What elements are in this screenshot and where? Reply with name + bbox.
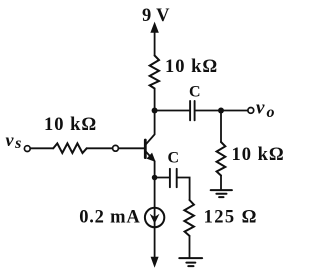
terminal circle vs <box>24 146 30 152</box>
svg-text:C: C <box>168 150 180 167</box>
resistor RL 10 kOhm (load) <box>217 142 226 176</box>
resistor RS 10 kOhm (source) <box>53 143 86 153</box>
wire RL to ground <box>220 176 222 191</box>
transistor Q1 base bar <box>144 140 147 158</box>
wire RE to ground <box>189 236 191 258</box>
wire capacitor C1 to output node <box>196 110 222 112</box>
wire base terminal to base <box>119 147 145 149</box>
transistor Q1 emitter arrow <box>147 154 155 162</box>
wire output node to vo terminal <box>221 110 248 112</box>
wire collector node to capacitor C1 <box>155 110 190 112</box>
ground (under RE) <box>179 257 202 259</box>
current source I1 internal wire <box>154 208 156 228</box>
wire emitter node to current source <box>154 178 156 258</box>
svg-text:0.2 mA: 0.2 mA <box>79 207 140 227</box>
transistor Q1 collector lead <box>146 111 155 145</box>
current source I1 arrow <box>151 215 159 223</box>
svg-text:vo: vo <box>256 97 274 121</box>
capacitor C2 plates <box>169 169 171 187</box>
terminal circle base <box>113 145 119 151</box>
resistor RC 10 kOhm (collector) <box>150 56 159 89</box>
svg-text:9 V: 9 V <box>142 6 170 26</box>
ground (under RL) <box>211 189 232 191</box>
svg-text:C: C <box>189 84 201 101</box>
wire capacitor C2 to RE corner <box>178 178 190 201</box>
wire output node down to RL <box>220 111 222 143</box>
svg-text:10 kΩ: 10 kΩ <box>44 115 97 135</box>
node collector junction dot <box>152 108 158 114</box>
wire RS to base terminal <box>87 147 113 149</box>
terminal circle vo <box>248 108 254 114</box>
current source I1 circle <box>145 208 164 227</box>
resistor RE 125 Ohm <box>184 200 194 236</box>
negative supply arrow <box>151 257 158 266</box>
svg-text:10 kΩ: 10 kΩ <box>232 145 285 165</box>
node emitter junction dot <box>152 175 158 181</box>
wire emitter node to capacitor C2 <box>155 177 169 179</box>
capacitor C1 plates <box>189 101 191 120</box>
svg-text:10 kΩ: 10 kΩ <box>165 57 218 77</box>
wire vs terminal to RS <box>30 147 53 149</box>
node output junction dot <box>218 108 224 114</box>
wire resistor to collector node <box>154 89 156 111</box>
9V supply arrow <box>154 30 156 56</box>
transistor Q1 emitter lead <box>146 152 155 178</box>
svg-text:125 Ω: 125 Ω <box>204 208 258 228</box>
svg-text:vs: vs <box>6 130 22 152</box>
